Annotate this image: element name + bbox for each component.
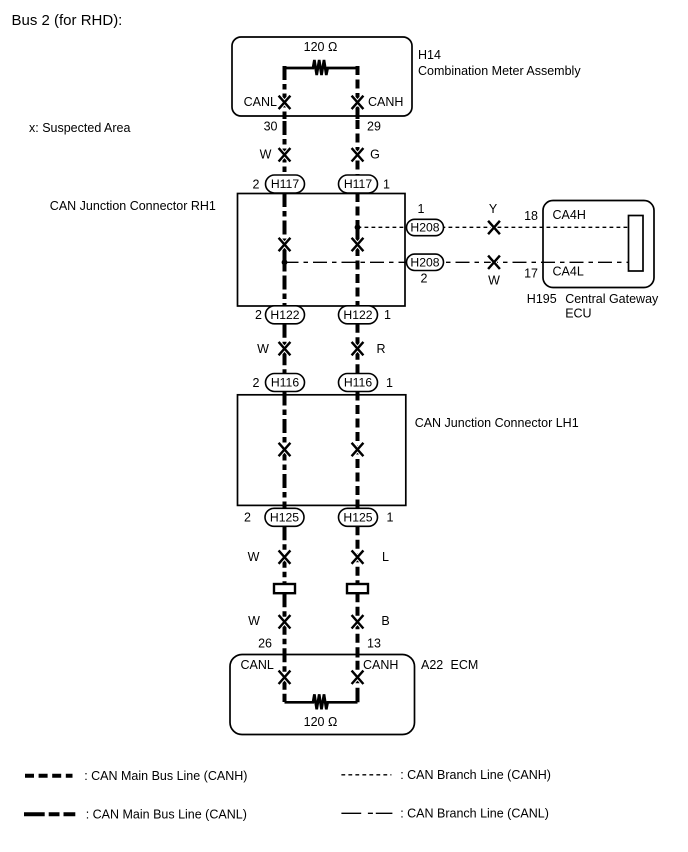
wire CANL main bus segment D (through LH1) [283,392,287,509]
svg-text:2: 2 [421,272,428,286]
svg-text:CA4H: CA4H [553,208,586,222]
svg-text:CANH: CANH [363,658,398,672]
svg-text:A22: A22 [421,658,443,672]
svg-text:: CAN Branch Line (CANH): : CAN Branch Line (CANH) [400,768,551,782]
svg-text:1: 1 [418,202,425,216]
wire CANL main bus segment F (inline connector to ECM resistor) [283,593,287,702]
svg-text:B: B [381,614,389,628]
svg-text:W: W [488,274,500,288]
inline connector (CANL wire) [274,584,295,593]
suspect mark X CANH (G row 152) [352,148,364,161]
suspect mark X CANL (W row 555) [279,550,291,563]
svg-text:CANL: CANL [241,658,274,672]
svg-text:W: W [248,614,260,628]
svg-text:: CAN Main Bus Line (CANH): : CAN Main Bus Line (CANH) [84,769,247,783]
svg-text:Central Gateway: Central Gateway [565,292,659,306]
svg-text:W: W [257,342,269,356]
connector H208 (CANH branch) [407,219,444,235]
svg-text:: CAN Main Bus Line (CANL): : CAN Main Bus Line (CANL) [86,808,247,822]
svg-text:H116: H116 [271,376,299,390]
svg-text:R: R [376,342,385,356]
wire CANH main bus segment E (H125 to inline connector) [356,526,360,584]
svg-text:120 Ω: 120 Ω [304,40,338,54]
legend sample CAN main bus line CANH [25,774,73,778]
resistor 120 ohm (bottom, inside ECM) [285,694,358,709]
ECM A22 box [230,655,415,735]
svg-text:H208: H208 [410,255,439,269]
svg-text:CANH: CANH [368,95,403,109]
svg-text:CA4L: CA4L [553,265,584,279]
ECU internal connector pin bar [629,216,644,272]
svg-text:H125: H125 [270,510,299,524]
CAN junction connector LH1 box [238,395,406,506]
svg-text:26: 26 [258,637,272,651]
svg-text:H122: H122 [270,308,299,322]
junction node on CANH [356,221,360,235]
wire CANH main bus segment A (H14 to H117) [356,66,360,175]
svg-text:H195: H195 [527,292,557,306]
svg-text:2: 2 [244,511,251,525]
suspect mark X branch CANL [488,256,500,269]
wire CANL main bus segment E (H125 to inline connector) [283,526,287,584]
suspect mark X CANL (W row 621) [279,615,291,628]
wire CANL branch line to CA4L (thin dash-dot) [285,261,629,263]
svg-text:Y: Y [489,202,498,216]
svg-text:2: 2 [255,308,262,322]
suspect mark X CANL (H14) [279,96,291,109]
svg-text:L: L [382,550,389,564]
svg-text:CAN Junction Connector RH1: CAN Junction Connector RH1 [50,199,216,213]
wire CANH main bus segment B (through RH1) [356,193,360,306]
legend sample CAN branch line CANL [341,812,392,814]
legend sample CAN main bus line CANL [24,812,75,816]
svg-text:Combination Meter Assembly: Combination Meter Assembly [418,64,581,78]
svg-text:CAN Junction Connector LH1: CAN Junction Connector LH1 [415,416,579,430]
legend sample CAN branch line CANH [341,774,391,776]
connector H117 pin 1 [339,175,378,193]
wire CANH main bus segment D (through LH1) [356,392,360,509]
suspect mark X CANH (L row 555) [352,550,364,563]
svg-text:CANL: CANL [244,95,277,109]
suspect mark X CANL (W row 152) [279,148,291,161]
svg-text:1: 1 [387,511,394,525]
svg-text:H117: H117 [344,177,372,191]
wire CANL main bus segment A (H14 to H117) [283,66,287,175]
svg-text:2: 2 [253,177,260,191]
svg-text:H117: H117 [271,177,299,191]
suspect mark X CANL (inside RH1) [279,238,291,251]
suspect mark X CANL (inside LH1) [279,443,291,456]
junction node on CANL [283,256,287,270]
svg-text:G: G [370,148,380,162]
wire CANH main bus segment C (H122 to H116) [356,324,360,374]
svg-text:W: W [248,550,260,564]
svg-text:2: 2 [253,376,260,390]
suspect mark X CANL (W row 349) [279,342,291,355]
svg-text:W: W [260,148,272,162]
suspect mark X CANH (inside ECM) [352,671,364,684]
connector H122 pin 1 [339,306,378,324]
combination meter assembly H14 box [232,37,412,116]
connector H122 pin 2 [266,306,305,324]
wire CANL main bus segment C (H122 to H116) [283,324,287,374]
svg-text:H208: H208 [410,221,439,235]
suspect mark X CANH (inside LH1) [352,443,364,456]
wire CANH branch line to CA4H (thin dashed) [358,226,629,228]
suspect mark X branch CANH [488,221,500,234]
svg-text:Bus 2 (for RHD):: Bus 2 (for RHD): [12,12,123,29]
svg-text:H125: H125 [343,510,372,524]
svg-text:18: 18 [524,209,538,223]
svg-text:120 Ω: 120 Ω [304,715,338,729]
wire CANL main bus segment B (through RH1) [283,193,287,306]
svg-text:1: 1 [386,376,393,390]
svg-text:17: 17 [524,267,538,281]
svg-text:x: Suspected Area: x: Suspected Area [29,121,131,135]
svg-text:30: 30 [264,119,278,133]
svg-text:: CAN Branch Line (CANL): : CAN Branch Line (CANL) [400,807,549,821]
suspect mark X CANH (B row 621) [352,615,364,628]
connector H116 pin 1 [339,374,378,392]
connector H208 (CANL branch) [407,254,444,270]
resistor 120 ohm (top, inside H14) [285,60,358,75]
connector H117 pin 2 [266,175,305,193]
svg-text:13: 13 [367,637,381,651]
svg-text:H116: H116 [344,376,372,390]
connector H125 pin 1 [339,508,378,526]
suspect mark X CANH (inside RH1) [352,238,364,251]
svg-text:ECU: ECU [565,306,591,320]
connector H125 pin 2 [265,508,304,526]
suspect mark X CANH (H14) [352,96,364,109]
suspect mark X CANH (R row 349) [352,342,364,355]
wire solid ticks at box border crossings [285,113,358,702]
svg-text:1: 1 [383,177,390,191]
wire CANH main bus segment F (inline connector to ECM resistor) [356,593,360,702]
connector H116 pin 2 [266,374,305,392]
svg-text:H14: H14 [418,48,441,62]
svg-text:ECM: ECM [451,658,479,672]
svg-text:1: 1 [384,308,391,322]
CAN junction connector RH1 box [238,194,406,307]
suspect mark X CANL (inside ECM) [279,671,291,684]
inline connector (CANH wire) [347,584,368,593]
svg-text:H122: H122 [343,308,372,322]
central gateway ECU box [543,201,654,288]
svg-text:29: 29 [367,119,381,133]
